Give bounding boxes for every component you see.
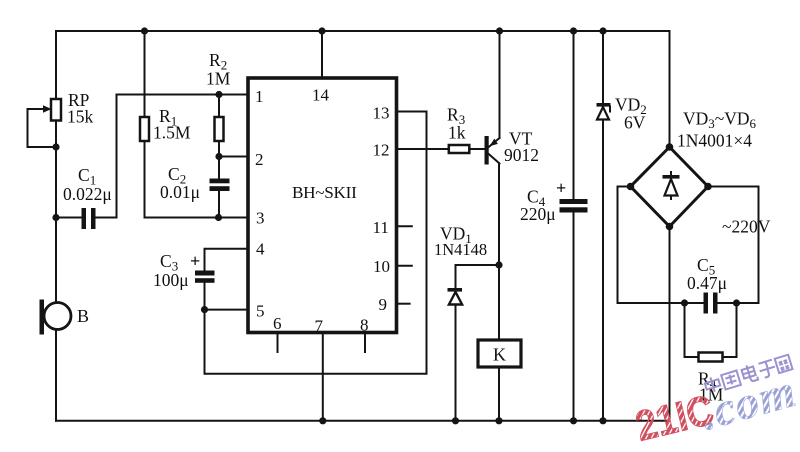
wire VT collector down — [498, 164, 500, 341]
wire pin3 net — [145, 217, 249, 219]
label ~220V — [722, 217, 771, 237]
watermark .com violet text — [695, 365, 800, 440]
wire pin 9 stub — [397, 303, 410, 305]
svg-text:100μ: 100μ — [153, 270, 189, 290]
svg-text:~220V: ~220V — [722, 217, 771, 237]
pin 8 label — [360, 316, 369, 335]
node C1 branch junction — [52, 214, 59, 221]
wire VT emitter to rail — [499, 31, 501, 138]
potentiometer RP — [28, 99, 62, 147]
wire pin 7 to ground rail — [322, 333, 324, 421]
wire RP bottom to mic — [55, 121, 57, 303]
label C4 220u + — [520, 178, 566, 224]
node pin14 rail junction — [318, 27, 325, 34]
capacitor C3 — [195, 271, 215, 310]
pin 3 label — [256, 209, 265, 228]
node bridge bottom vertex — [666, 223, 674, 231]
node C4 ground junction — [570, 417, 577, 424]
pin 5 label — [256, 302, 265, 321]
svg-text:12: 12 — [373, 141, 390, 160]
label BH~SKII — [292, 183, 357, 202]
wire pin 14 to rail — [321, 31, 323, 78]
node VD2 rail junction — [599, 27, 606, 34]
node collector VD1 junction — [495, 261, 502, 268]
svg-text:2: 2 — [255, 150, 264, 169]
label RP 15k — [67, 90, 94, 127]
bridge rectifier VD3-VD6 — [631, 147, 709, 227]
svg-text:B: B — [77, 306, 89, 326]
wire pin2 — [219, 156, 248, 158]
capacitor C1 — [56, 208, 117, 229]
IC U1 BH~SKII — [248, 78, 397, 333]
label R4 1M — [698, 369, 724, 405]
wire VD1 branch — [456, 265, 500, 288]
node K ground junction — [495, 417, 502, 424]
wire bridge bottom to ground rail — [669, 227, 671, 421]
label R3 1k — [447, 105, 466, 143]
pin 6 label — [273, 314, 282, 333]
wire C4 top — [573, 31, 575, 199]
node R4 left junction — [681, 299, 688, 306]
svg-text:6: 6 — [273, 314, 282, 333]
node VD2 ground junction — [599, 417, 606, 424]
watermark 21IC red text — [631, 387, 718, 451]
pin 4 label — [256, 240, 265, 259]
svg-text:11: 11 — [373, 218, 389, 237]
wire pin 6 stub — [277, 333, 279, 353]
label VD1 1N4148 — [434, 224, 487, 260]
label R2 1M — [206, 50, 231, 89]
wire C1 up to pin1 net — [117, 95, 249, 218]
pin 14 label — [312, 86, 330, 105]
svg-text:VD3~VD6: VD3~VD6 — [683, 109, 757, 132]
svg-text:1M: 1M — [206, 69, 231, 89]
node C4 rail junction — [570, 27, 577, 34]
node pin7 ground junction — [319, 417, 326, 424]
pin 13 label — [373, 104, 390, 123]
wire bridge left AC arm — [618, 187, 704, 304]
wire mic to bottom rail — [55, 330, 57, 421]
wire top supply rail — [56, 30, 670, 32]
svg-text:1k: 1k — [448, 123, 466, 143]
svg-text:0.022μ: 0.022μ — [63, 184, 112, 204]
label C3 100u + — [153, 251, 200, 290]
transistor VT 9012 — [485, 136, 500, 165]
node R2 bottom pin2 junction — [215, 153, 222, 160]
svg-text:14: 14 — [312, 86, 330, 105]
pin 2 label — [255, 150, 264, 169]
resistor R4 — [685, 303, 737, 362]
wire bridge top — [669, 31, 671, 147]
svg-text:BH~SKII: BH~SKII — [292, 183, 357, 202]
svg-text:4: 4 — [256, 240, 265, 259]
microphone B — [40, 300, 72, 335]
label R1 1.5M — [153, 106, 191, 143]
label K — [493, 345, 506, 365]
pin 1 label — [255, 87, 264, 106]
relay K — [478, 340, 521, 367]
label VD2 6V — [615, 95, 647, 133]
label B — [77, 306, 89, 326]
label C2 0.01u — [160, 164, 200, 202]
svg-text:10: 10 — [373, 257, 390, 276]
node VT emitter rail junction — [496, 27, 503, 34]
svg-text:1.5M: 1.5M — [153, 123, 191, 143]
wire pin 5 — [205, 309, 249, 311]
watermark chinese characters zhong guo dian zi wang — [702, 353, 792, 396]
wire K to ground — [498, 367, 500, 421]
node pin5 C3 junction — [201, 306, 208, 313]
svg-text:1: 1 — [255, 87, 264, 106]
resistor R1 — [140, 31, 149, 218]
wire pin 10 stub — [397, 265, 412, 267]
wire pin5 to pin13 link — [205, 112, 427, 374]
node bridge left vertex — [627, 183, 635, 191]
svg-text:0.01μ: 0.01μ — [160, 182, 200, 202]
wire VD2 top — [602, 31, 604, 103]
node VD1 ground junction — [452, 417, 459, 424]
svg-text:6V: 6V — [624, 113, 646, 133]
svg-text:220μ: 220μ — [520, 204, 556, 224]
svg-text:9012: 9012 — [504, 145, 539, 165]
svg-text:1N4001×4: 1N4001×4 — [677, 131, 752, 151]
svg-text:13: 13 — [373, 104, 390, 123]
wire pin 8 stub — [364, 333, 366, 353]
svg-text:15k: 15k — [67, 107, 94, 127]
pin 9 label — [379, 295, 388, 314]
label VT 9012 — [504, 129, 539, 166]
svg-text:1N4148: 1N4148 — [434, 240, 487, 259]
svg-text:+: + — [556, 178, 566, 198]
node bridge top vertex — [666, 143, 674, 151]
capacitor C5 — [704, 293, 759, 314]
node R4 right junction — [733, 299, 740, 306]
svg-text:+: + — [190, 251, 200, 271]
resistor R2 — [215, 95, 224, 157]
zener diode VD2 — [597, 103, 611, 421]
node RP wiper junction — [52, 143, 59, 150]
pin 12 label — [373, 141, 390, 160]
pin 11 label — [373, 218, 389, 237]
wire pin 12 to R3 — [397, 148, 449, 150]
wire pin 4 — [205, 249, 249, 271]
label C5 0.47u — [687, 255, 727, 293]
pin 7 label — [315, 317, 324, 336]
capacitor C2 — [210, 157, 230, 218]
svg-text:K: K — [493, 345, 506, 365]
capacitor C4 — [560, 199, 588, 421]
svg-text:0.47μ: 0.47μ — [687, 273, 727, 293]
diode VD1 — [448, 288, 463, 421]
label VD3~VD6 1N4001x4 — [677, 109, 757, 151]
node C2 bottom junction — [215, 214, 222, 221]
node R1 top rail junction — [141, 27, 148, 34]
pin 10 label — [373, 257, 390, 276]
label C1 0.022u — [63, 165, 112, 204]
wire bottom ground rail — [56, 420, 669, 422]
node bridge right vertex — [704, 183, 712, 191]
wire bridge right AC arm — [708, 187, 759, 304]
wire pin 11 stub — [397, 225, 412, 227]
resistor R3 — [449, 145, 485, 153]
svg-text:9: 9 — [379, 295, 388, 314]
wire left branch down to RP — [55, 31, 57, 99]
svg-text:5: 5 — [256, 302, 265, 321]
node R2 top junction — [215, 91, 222, 98]
svg-text:3: 3 — [256, 209, 265, 228]
